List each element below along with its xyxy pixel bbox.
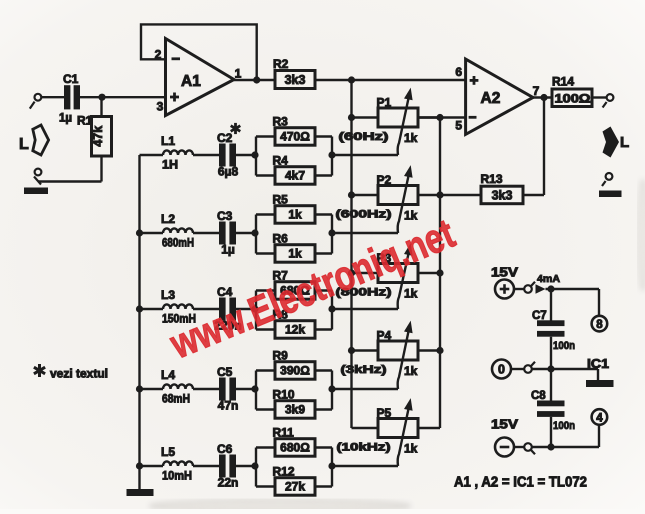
svg-text:1k: 1k [288, 247, 302, 261]
svg-text:6µ8: 6µ8 [218, 165, 239, 179]
svg-text:1k: 1k [404, 364, 418, 378]
svg-text:L5: L5 [161, 445, 175, 459]
svg-text:100n: 100n [553, 420, 575, 432]
svg-text:390Ω: 390Ω [280, 364, 310, 378]
svg-text:4k7: 4k7 [285, 169, 305, 183]
svg-text:1k: 1k [404, 209, 418, 223]
svg-text:P4: P4 [377, 329, 392, 343]
svg-text:3: 3 [157, 100, 164, 114]
svg-text:L4: L4 [161, 368, 175, 382]
svg-text:4: 4 [596, 412, 603, 424]
svg-text:R3: R3 [273, 115, 289, 129]
svg-text:1: 1 [235, 67, 242, 81]
svg-text:5: 5 [455, 119, 462, 133]
svg-text:1k: 1k [404, 287, 418, 301]
svg-text:vezi textul: vezi textul [50, 367, 108, 381]
svg-text:C6: C6 [217, 442, 233, 456]
svg-text:12k: 12k [285, 323, 305, 337]
svg-text:P1: P1 [377, 96, 392, 110]
svg-text:A2: A2 [481, 90, 501, 107]
svg-text:IC1: IC1 [587, 357, 609, 371]
svg-text:22n: 22n [218, 476, 239, 490]
svg-text:R4: R4 [273, 154, 289, 168]
svg-text:3k3: 3k3 [492, 189, 513, 203]
svg-text:15V: 15V [491, 418, 519, 432]
svg-text:R2: R2 [273, 57, 289, 71]
svg-text:R12: R12 [273, 465, 295, 479]
svg-text:P5: P5 [377, 406, 392, 420]
svg-text:1k: 1k [404, 442, 418, 456]
svg-text:100Ω: 100Ω [555, 94, 591, 106]
svg-text:1H: 1H [162, 158, 178, 172]
svg-text:(3kHz): (3kHz) [341, 364, 387, 376]
svg-text:C3: C3 [217, 209, 233, 223]
svg-text:3k9: 3k9 [285, 403, 305, 417]
svg-text:L2: L2 [161, 212, 175, 226]
svg-text:R10: R10 [273, 388, 295, 402]
svg-text:C2: C2 [217, 131, 233, 145]
svg-text:L3: L3 [161, 288, 175, 302]
svg-text:R6: R6 [273, 232, 289, 246]
svg-text:1k: 1k [288, 208, 302, 222]
svg-text:15V: 15V [491, 266, 519, 280]
svg-text:1µ: 1µ [59, 113, 72, 125]
svg-text:2: 2 [155, 48, 162, 62]
svg-text:(600Hz): (600Hz) [336, 209, 392, 221]
svg-text:C1: C1 [63, 72, 79, 86]
svg-text:L1: L1 [161, 134, 175, 148]
svg-text:(10kHz): (10kHz) [337, 442, 391, 454]
svg-text:R14: R14 [552, 75, 574, 89]
svg-text:1µ: 1µ [221, 243, 235, 257]
svg-text:680Ω: 680Ω [280, 441, 310, 455]
svg-text:0: 0 [498, 363, 505, 377]
svg-text:27k: 27k [285, 480, 305, 494]
svg-text:R13: R13 [481, 172, 503, 186]
svg-text:10mH: 10mH [162, 469, 192, 483]
svg-text:A1: A1 [181, 73, 201, 90]
svg-text:R11: R11 [273, 426, 295, 440]
svg-text:C8: C8 [531, 390, 546, 402]
svg-text:470Ω: 470Ω [280, 130, 310, 144]
svg-text:1k: 1k [404, 131, 418, 145]
svg-text:47n: 47n [218, 399, 239, 413]
svg-text:R9: R9 [273, 349, 289, 363]
svg-text:7: 7 [533, 84, 540, 98]
svg-text:L: L [19, 136, 29, 153]
svg-text:L: L [620, 134, 629, 151]
svg-text:4mA: 4mA [537, 273, 560, 285]
svg-text:C5: C5 [217, 365, 233, 379]
svg-text:P2: P2 [377, 173, 392, 187]
svg-text:A1 , A2 = IC1 = TL072: A1 , A2 = IC1 = TL072 [454, 475, 587, 491]
svg-text:680mH: 680mH [162, 236, 194, 250]
svg-text:68mH: 68mH [162, 392, 190, 406]
svg-text:R5: R5 [273, 193, 289, 207]
svg-text:47k: 47k [91, 126, 105, 147]
svg-text:(60Hz): (60Hz) [339, 131, 389, 143]
svg-text:6: 6 [455, 65, 462, 79]
svg-text:C7: C7 [532, 310, 547, 322]
svg-text:8: 8 [596, 319, 603, 331]
svg-text:3k3: 3k3 [285, 73, 306, 87]
svg-text:100n: 100n [553, 340, 575, 352]
